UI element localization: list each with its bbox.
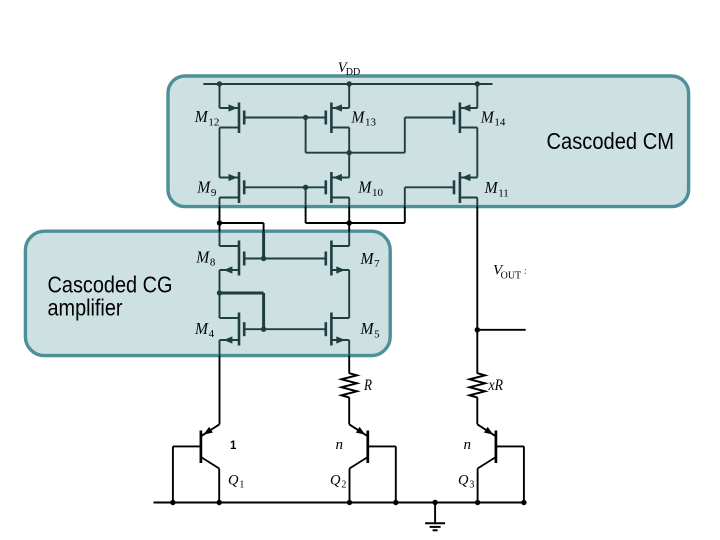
wire row2 bias: horizontal to M10 drain [306,222,350,224]
wire M4-M5 gate line [244,328,326,330]
wire gate-tap jog vertical (gap) [263,223,265,232]
svg-text:1: 1 [239,480,244,491]
junction M13 drain node [347,150,352,155]
svg-text:R: R [363,377,372,394]
label Q1 [228,473,244,491]
wire M8-M7 gate line [244,258,326,260]
pmos M9 [220,172,245,203]
svg-text:1: 1 [230,440,237,452]
label Q1 ratio 1 [230,440,237,452]
junction Q3 base on rail [521,500,526,505]
region box: Cascoded CG amplifier [25,231,390,355]
wire lower gate-tap jog vertical [262,293,265,329]
svg-text:14: 14 [494,117,506,129]
svg-text:n: n [464,437,472,453]
junction ground tap on rail [432,500,437,505]
junction VOUT tap [475,327,480,332]
pmos M13 [326,103,349,134]
svg-text:M: M [484,178,499,197]
svg-text:Q: Q [228,473,239,489]
nmos M8 [220,241,245,276]
label Q2 ratio n [336,437,344,453]
ground [425,503,445,531]
label M13 [350,107,376,128]
svg-text::: : [524,266,527,277]
wire row2 bias: gate node down (gap) [305,207,307,224]
svg-text:9: 9 [211,187,217,199]
wire row1 bias: horizontal to M14 gate leg [306,152,405,154]
svg-text:xR: xR [488,377,504,394]
wire M13 drain node to M10 source [348,153,350,178]
svg-text:Q: Q [330,473,341,489]
wire M8 source to node [219,270,221,293]
pmos M10 [326,172,349,203]
wire M10 drain down (gap) [348,207,350,224]
label M7 [360,249,381,270]
wire M11 gate leg up (gap) [404,207,406,224]
junction M4-M5 gate node [261,327,266,332]
wire M5 source down (in box) [348,340,350,356]
wire mid node to M11 gate leg [349,222,405,224]
wire M9-M10 gate line [244,186,326,188]
svg-text:7: 7 [374,258,380,270]
wire mid node down to M7 drain (gap) [348,223,350,232]
resistor xR [470,373,485,397]
svg-text:M: M [357,178,372,197]
wire R to Q2 emitter [348,397,350,424]
label xR [488,377,504,394]
wire VDD to M14 source [476,84,478,108]
wire M9 drain down (in CM box) [219,198,221,207]
wire lower gate-tap jog horizontal [220,292,264,295]
label M11 [484,178,509,199]
pmos M14 [454,103,477,134]
label Cascoded CG amplifier [48,271,173,320]
bjt Q1 [173,424,220,502]
svg-text:DD: DD [346,67,360,78]
wire gate-tap jog vertical (in box) [262,232,265,259]
label M8 [195,247,216,268]
label Cascoded CM [547,128,675,154]
wire node to M4 drain [219,293,221,318]
wire M13 drain to node [348,128,350,153]
nmos M5 [326,313,349,346]
junction VDD-M13 [347,81,352,86]
wire xR top [476,373,478,375]
nmos M7 [326,241,349,276]
net VDD rail [203,83,492,85]
label M12 [194,107,220,128]
wire M7 source to M5 drain [348,270,350,318]
wire M10 drain down (in box) [348,198,350,207]
pmos M12 [220,103,245,134]
junction VDD-M12 [217,81,222,86]
pmos M11 [454,172,477,203]
svg-text:13: 13 [365,117,377,129]
wire M4 source to Q1 emitter [219,356,221,425]
bjt Q2 [349,424,396,502]
junction Q1 base on rail [170,500,175,505]
label M4 [194,319,215,340]
wire M5 source to resistor R [348,356,350,374]
svg-text:2: 2 [341,480,346,491]
label VOUT [493,263,527,282]
svg-text:8: 8 [210,257,216,269]
svg-text:M: M [194,107,209,126]
wire row1 bias: gate node down [305,118,307,153]
svg-text:M: M [360,249,375,268]
region box: Cascoded CM current mirror [168,76,689,207]
svg-text:3: 3 [469,480,474,491]
wire M9 drain gap segment [219,207,221,232]
svg-text:M: M [350,107,365,126]
label M10 [357,178,383,199]
wire M11 drain down (in box) [476,198,478,207]
svg-text:M: M [360,319,375,338]
wire to M11 gate [405,186,454,188]
wire xR to Q3 emitter [476,397,478,424]
wire M4 source down (in box) [219,340,221,356]
svg-text:Cascoded CM: Cascoded CM [547,128,675,154]
wire gate-tap jog horizontal [220,222,264,224]
svg-text:M: M [194,319,209,338]
label M5 [360,319,381,340]
label R [363,377,372,394]
resistor R [342,373,357,397]
junction M10 drain / M7 drain node [347,220,352,225]
wire M11 gate leg up (in box) [404,187,406,206]
svg-text:Q: Q [458,473,469,489]
svg-text:5: 5 [374,328,380,340]
wire VDD to M13 source [348,84,350,108]
junction M9 drain / M8 gate tap [217,220,222,225]
svg-text:12: 12 [208,116,219,128]
junction Q1 collector on rail [217,500,222,505]
svg-text:M: M [480,107,495,126]
wire mid node down to M7 drain (in box) [348,232,350,247]
junction VDD-M14 [475,81,480,86]
junction M8-M7 gate node [261,256,266,261]
svg-text:11: 11 [498,187,509,199]
svg-text:4: 4 [209,328,215,340]
junction Q2 collector on rail [347,500,352,505]
wire VOUT tap stub [477,329,525,331]
wire M9 drain to M8 drain (in CG box) [219,232,221,247]
wire VDD to M12 source [219,84,221,108]
junction row2 gate node [303,185,308,190]
bjt Q3 [477,424,524,502]
junction row1 gate node [303,115,308,120]
junction M8 source / M4 drain / gate tap [217,290,222,295]
wire M12-M13 gate line [244,117,326,119]
svg-text:M: M [195,247,210,266]
wire row2 bias: gate node down (in box) [305,187,307,206]
svg-text:amplifier: amplifier [48,294,123,320]
label M9 [196,178,217,199]
label Q2 [330,473,346,491]
svg-text:OUT: OUT [501,270,522,281]
label Q3 [458,473,474,491]
nmos M4 [220,313,245,346]
svg-text:n: n [336,437,344,453]
wire to M14 gate [405,117,454,119]
wire M11 drain to xR (VOUT net) [476,207,478,374]
label Q3 ratio n [464,437,472,453]
wire row1 bias: up to M14 gate level [404,118,406,153]
net ground rail [154,502,525,504]
junction Q3 collector on rail [475,500,480,505]
label VDD [338,60,360,78]
wire M14 drain to M11 source [476,128,478,178]
svg-text:M: M [196,178,211,197]
wire M12 drain to M9 source [219,128,221,178]
svg-text:10: 10 [372,187,384,199]
label M14 [480,107,506,128]
junction Q2 base on rail [393,500,398,505]
